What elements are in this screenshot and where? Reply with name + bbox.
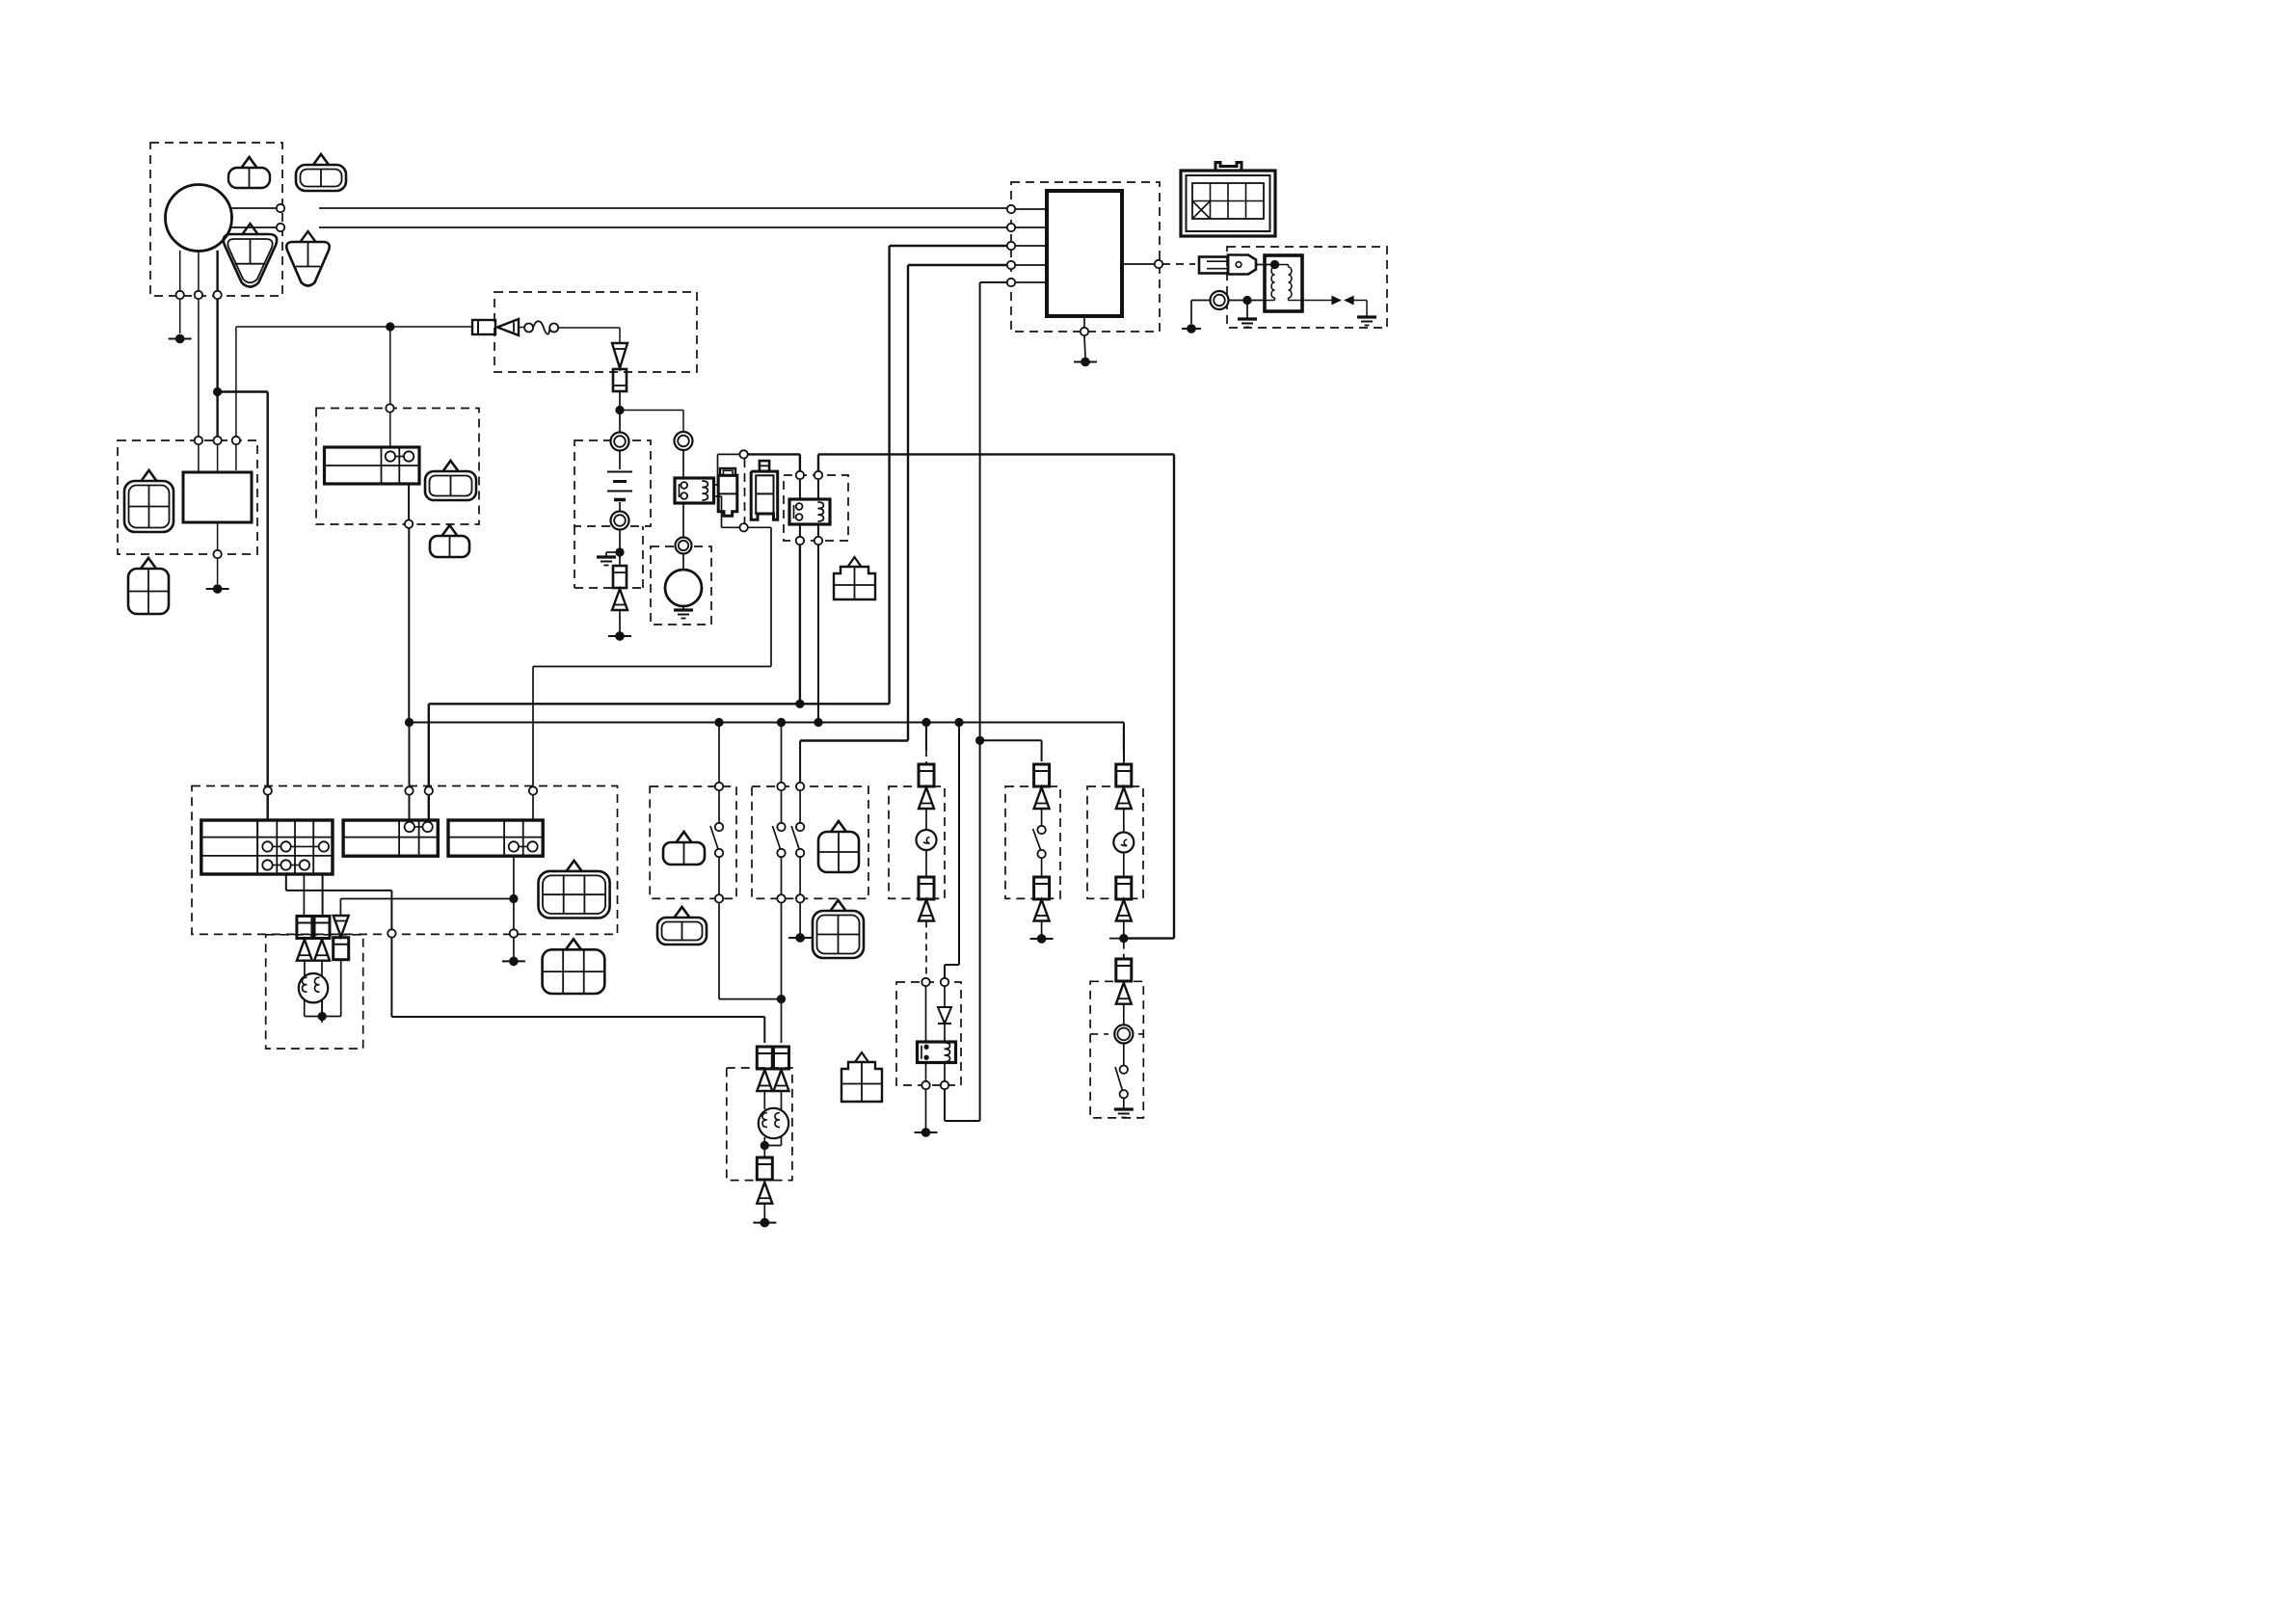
wire swbox2b ground	[799, 902, 801, 934]
wire to tail connector	[340, 898, 514, 900]
pin flasher 2	[941, 978, 948, 986]
ground (plug shell)	[1187, 324, 1196, 333]
pin taillight feed	[387, 929, 395, 937]
pin swbox2 a out	[777, 894, 785, 902]
flasher diode	[944, 986, 946, 1007]
flasher dashed enclosure	[896, 982, 961, 1085]
wire meter lead	[925, 809, 927, 830]
wire magneto to CDI (red)	[229, 226, 277, 228]
connector 3P triangular receptacle	[301, 231, 316, 242]
CDI pin 2	[1007, 224, 1015, 231]
starter motor dashed enclosure	[651, 546, 711, 625]
wire magneto phase 1	[179, 251, 181, 291]
ignition coil	[1265, 255, 1302, 311]
brake switch dashed enclosure	[1005, 786, 1060, 898]
wire to main switch feed	[218, 390, 268, 392]
spark gap	[1302, 300, 1333, 302]
pin cutoff 4	[814, 537, 822, 545]
wire battery negative	[619, 530, 621, 567]
brake connector top	[1034, 764, 1050, 786]
wire indicator out	[1123, 921, 1125, 936]
pin flasher 3	[921, 1081, 929, 1089]
junction J	[814, 718, 822, 727]
oil connector	[1116, 959, 1132, 981]
connector sleeve (fuse lead)	[472, 320, 495, 334]
wire relay out to bus	[408, 484, 410, 520]
wire coil ground	[1246, 301, 1248, 320]
ground (swbox2)	[795, 933, 805, 943]
headlight ground connector	[757, 1157, 772, 1180]
wire cutoff out	[799, 524, 801, 537]
tail light dashed enclosure	[266, 935, 363, 1049]
pin light sw	[529, 786, 537, 794]
wire headlight return	[763, 1137, 765, 1157]
pin R	[277, 224, 284, 231]
connector 2P (magneto)	[242, 157, 257, 168]
wire flasher out2	[944, 1063, 946, 1082]
ground (flasher)	[921, 1128, 931, 1137]
pin rect1	[195, 437, 202, 444]
wire coil return	[748, 526, 771, 528]
tail lamp return	[304, 1000, 306, 1017]
wire CDI pin3 run	[890, 245, 1007, 247]
CDI pin 5	[1007, 279, 1015, 286]
connector 4P (swbox2)	[831, 821, 846, 832]
meter light dashed enclosure	[889, 786, 945, 898]
wire relay coil out	[713, 495, 722, 497]
wire flasher col1	[925, 986, 927, 1042]
wire terminal to relay	[682, 450, 684, 478]
pin starter circuit 2	[739, 523, 747, 531]
pin phase1	[176, 291, 184, 299]
wire cutoff to bus	[817, 545, 819, 718]
headlight bulb	[759, 1108, 788, 1138]
junction H	[405, 718, 414, 727]
wire cutoff pins	[799, 479, 801, 499]
pin sub2	[425, 786, 433, 794]
pin flasher 1	[921, 978, 929, 986]
junction C	[615, 406, 624, 414]
meter light bulb	[917, 830, 937, 850]
connector 2P (swbox1)	[677, 832, 692, 842]
connector 2P (relay)	[443, 461, 459, 471]
wire to ground	[513, 938, 515, 958]
rectifier/regulator unit	[183, 472, 252, 522]
tail connector 3	[334, 916, 349, 937]
wire long feed right	[818, 453, 1174, 455]
starter cutoff relay	[789, 499, 830, 524]
switch box 1 dashed enclosure	[650, 786, 736, 898]
flasher relay	[918, 1042, 956, 1063]
wire main sw out2	[303, 874, 305, 917]
wire main sw out1	[285, 874, 287, 891]
tail connector 1	[297, 917, 312, 939]
junction N	[509, 894, 518, 903]
oil switch dashed enclosure	[1090, 981, 1143, 1118]
indicator bulb	[1113, 833, 1134, 853]
pin phase2	[195, 291, 202, 299]
wire plug right	[1229, 300, 1266, 302]
wire flasher power	[958, 723, 960, 966]
junction A	[213, 387, 222, 396]
ground (magneto)	[175, 334, 185, 344]
pin swbox2 b out	[796, 894, 804, 902]
junction K	[921, 718, 930, 727]
wire plug left	[1191, 300, 1211, 302]
connector 2P receptacle	[313, 154, 329, 165]
junction E	[795, 700, 804, 708]
junction D	[615, 547, 624, 556]
wire swbox1 col lower	[718, 857, 720, 894]
fuse holder 2	[760, 461, 769, 471]
wire meter lead 2	[925, 850, 927, 877]
wire headlight ground	[763, 1204, 765, 1218]
lighting sub block	[448, 820, 543, 856]
meter connector bottom	[919, 877, 934, 899]
wire flasher feed branch	[980, 739, 1042, 741]
relay unit block	[325, 447, 420, 484]
pin light out	[510, 929, 518, 937]
wire to frame	[619, 610, 621, 632]
female terminal (coil lead)	[1199, 257, 1228, 274]
junction I	[777, 718, 786, 727]
battery cells	[607, 471, 632, 473]
male terminal	[497, 319, 519, 335]
oil level switch	[1120, 1066, 1128, 1074]
wire rect3 feed	[235, 444, 237, 470]
wire swbox1 col	[718, 790, 720, 823]
pin W	[277, 204, 284, 212]
wire magneto to CDI (white)	[232, 207, 278, 209]
pin relay top	[386, 404, 393, 412]
starter relay SR	[675, 478, 714, 503]
pin swbox1 out	[715, 894, 723, 902]
main fuse dashed enclosure	[494, 292, 697, 372]
tail/brake lamp	[299, 973, 328, 1002]
wire oil feed	[1123, 943, 1125, 959]
frame ground (battery)	[615, 631, 625, 641]
wire magneto phase 3	[216, 251, 218, 291]
meter connector top	[919, 764, 934, 786]
spare fuse housing	[613, 566, 627, 588]
starter motor terminal	[676, 538, 692, 554]
pin cutoff 3	[796, 537, 804, 545]
CDI pin 1	[1007, 205, 1015, 213]
connector 4P free (swbox2)	[831, 900, 846, 911]
starter motor M	[665, 570, 702, 606]
connector 4P (headlight)	[855, 1052, 868, 1062]
wire tail lamp leads	[304, 961, 306, 975]
wire brake lead 2	[1041, 858, 1043, 877]
wire magneto phase 2	[198, 251, 200, 291]
pin phase3	[213, 291, 221, 299]
ground (oil switch)	[1114, 1107, 1134, 1110]
connector 8P coupler	[1181, 171, 1275, 236]
junction O	[714, 718, 723, 727]
ground (light sw)	[509, 957, 519, 967]
tail connector 2	[314, 917, 330, 939]
indicator dashed enclosure	[1087, 786, 1143, 898]
wire terminal to coil	[1256, 264, 1275, 266]
pin starter circuit 1	[739, 450, 747, 458]
wire brake ground lead	[1041, 921, 1043, 936]
wire oil ground	[1123, 1098, 1125, 1109]
wire tail feed lower	[390, 938, 392, 1018]
battery - terminal	[611, 512, 629, 530]
switch 1	[715, 823, 723, 831]
battery + terminal	[611, 433, 629, 451]
brake switch	[1037, 826, 1045, 834]
CDI pin 4	[1007, 261, 1015, 269]
ground (CDI)	[1081, 358, 1090, 367]
wire brake lead	[1041, 809, 1043, 826]
indicator connector top	[1116, 764, 1132, 786]
main switch dashed enclosure	[192, 786, 618, 935]
connector 6P coupler	[567, 861, 582, 871]
connector 2P free (swbox1)	[675, 907, 690, 918]
wire headlight leads	[763, 1091, 765, 1109]
junction B	[386, 322, 394, 331]
battery ground connector	[612, 589, 627, 610]
wire main sw out3	[322, 874, 324, 917]
junction M	[318, 1012, 327, 1021]
ground stub (battery)	[606, 551, 620, 553]
headlight dashed enclosure	[727, 1068, 792, 1181]
pin flasher 4	[941, 1081, 948, 1089]
fuse F1	[524, 324, 533, 333]
wire flasher ground	[925, 1089, 927, 1129]
wire to relay feed	[1124, 937, 1174, 939]
junction P	[777, 995, 786, 1003]
wire swbox1 out	[718, 902, 720, 998]
starter relay terminal	[675, 432, 693, 450]
wire CDI pin4 run	[908, 264, 1007, 266]
pin rect2	[213, 437, 221, 444]
relay unit dashed enclosure	[316, 409, 479, 525]
junction R	[1119, 934, 1128, 943]
pin swbox1	[715, 783, 723, 790]
wire relay feed	[389, 331, 391, 405]
pin cutoff 1	[796, 471, 804, 479]
CDI pin 3	[1007, 242, 1015, 250]
ignition coil dashed enclosure	[1227, 247, 1387, 328]
wire light sw out	[513, 856, 515, 929]
wire oil lead	[1123, 1004, 1125, 1024]
AC magneto generator G1	[166, 185, 232, 252]
wire pin1 to cutoff relay	[748, 453, 800, 455]
CDI unit	[1047, 191, 1122, 316]
AC magneto dashed enclosure	[150, 143, 282, 296]
connector 2P below relay	[442, 525, 458, 536]
wire CDI pin5 run	[980, 281, 1007, 283]
wire rect pins to unit	[198, 444, 200, 472]
connector 3P triangular (magneto)	[243, 224, 258, 234]
junction L	[954, 718, 963, 727]
pin cutoff 2	[814, 471, 822, 479]
switch box 2 dashed enclosure	[752, 786, 868, 898]
main switch block	[201, 820, 333, 874]
ground (brake sw)	[1037, 934, 1047, 944]
wire flasher out1	[925, 1063, 927, 1082]
ground (rectifier)	[213, 584, 223, 594]
CDI ground pin	[1083, 316, 1085, 328]
CDI dashed enclosure	[1011, 182, 1160, 332]
wire relay contact out	[713, 484, 718, 486]
wire CDI to coil lead	[1162, 263, 1195, 265]
headlight connector R	[774, 1047, 789, 1069]
ignition sub block	[343, 820, 438, 856]
wire meter to flasher	[925, 921, 927, 979]
pin relay bottom	[405, 520, 413, 528]
wire meter feed	[925, 727, 927, 751]
pin rect3	[232, 437, 240, 444]
junction F	[975, 736, 984, 745]
wire indicator lead 2	[1123, 853, 1125, 878]
wire oil lead 2	[1123, 1044, 1125, 1066]
pin sub1	[405, 786, 413, 794]
pin swbox2 a	[777, 783, 785, 790]
indicator connector bottom	[1116, 877, 1132, 899]
pin swbox2 b	[796, 783, 804, 790]
ground (headlight)	[761, 1218, 770, 1228]
wire to starter relay terminal	[620, 410, 683, 412]
brake connector bottom	[1034, 877, 1050, 899]
headlight connector L	[757, 1047, 772, 1069]
wire relay to motor	[682, 503, 684, 537]
wire rectifier output	[217, 522, 219, 550]
bus wire (brown)	[410, 722, 1125, 724]
wire fuse out	[619, 391, 621, 432]
CDI output pin	[1122, 263, 1155, 265]
spark plug	[1211, 291, 1229, 309]
switch 2a	[781, 790, 783, 823]
junction Q	[761, 1141, 769, 1150]
connector 6P free	[566, 939, 581, 949]
wire fuse to battery	[558, 327, 620, 329]
rectifier dashed enclosure	[118, 440, 257, 554]
wire cutoff to handlebar sw	[799, 545, 801, 700]
ground bar (indicator)	[1109, 938, 1138, 940]
connector 4P (rectifier)	[142, 470, 157, 481]
male spade terminal	[1228, 255, 1256, 275]
pin rect out	[213, 550, 221, 558]
fusible link (triangle)	[612, 343, 627, 368]
pin main sw feed	[264, 786, 272, 794]
switch 2b	[799, 790, 801, 823]
oil ring terminal	[1114, 1024, 1133, 1043]
starter cutoff relay dashed enclosure	[784, 475, 848, 541]
junction G	[1242, 296, 1251, 305]
ground (starter motor)	[682, 606, 684, 610]
wire headlight feed	[781, 902, 783, 1043]
interface dashed edge	[744, 459, 746, 523]
battery dashed enclosure	[574, 440, 651, 526]
fuse housing	[613, 369, 627, 391]
wire indicator lead	[1123, 809, 1125, 832]
connector 4P (cutoff)	[848, 557, 862, 567]
connector 4P below rectifier	[141, 558, 156, 569]
fuse holder 1	[720, 468, 735, 476]
